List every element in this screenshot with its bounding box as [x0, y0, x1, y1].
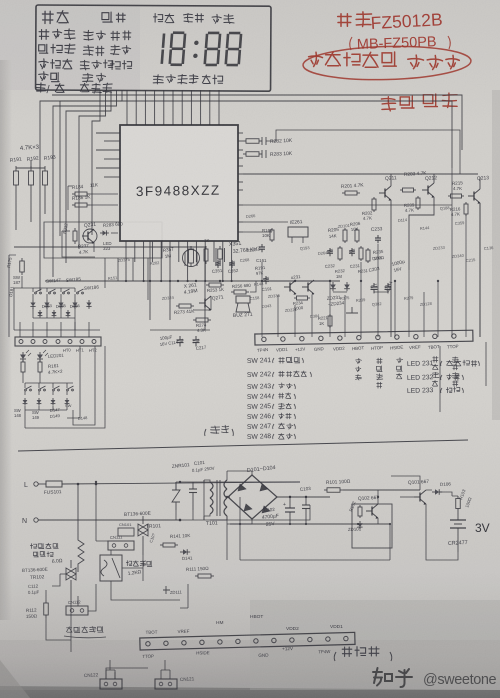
label main heater (chinese): [30, 544, 36, 549]
wire bus display to IC top: [126, 90, 128, 125]
taste column: [111, 31, 120, 40]
wire rail to resistors: [30, 160, 32, 168]
label taste (kougan): [102, 12, 112, 22]
label side heater (chinese, underlined): [67, 627, 73, 632]
fuse FUS101: [38, 483, 46, 485]
label relay / top heater (chinese): [126, 561, 131, 566]
cap hatch marks: [177, 339, 183, 343]
power board connector strip: [140, 624, 356, 661]
extra right buses: [243, 221, 288, 223]
resistor R234 1000: [294, 297, 297, 299]
connector CN122: [100, 679, 122, 689]
rail above IC to right side: [60, 101, 452, 168]
resistor R256 680: [231, 291, 234, 293]
resistor R216 4.7K: [465, 202, 467, 204]
RC pairs C232/R232 C231/R231: [329, 248, 331, 251]
transistor Q271: [199, 302, 205, 304]
resistor R273 41K: [176, 305, 179, 307]
ceramic resonator X261 cluster: [183, 250, 200, 267]
wire heater top join: [95, 483, 98, 486]
transformer T101: [210, 480, 227, 516]
left nested rails: [59, 101, 61, 236]
nested return wires: [73, 346, 95, 425]
vertical chinese labels under connector: [356, 358, 362, 363]
resistor R111 150: [195, 575, 198, 577]
label hour: [202, 75, 210, 83]
bus into left connector: [19, 322, 21, 337]
diode row D181-D186: [32, 300, 34, 303]
display panel box: [36, 5, 271, 97]
resistor 1K vertical: [205, 246, 207, 249]
box around regulator: [352, 504, 392, 548]
resistor pair R161 4.7Kx2: [22, 360, 24, 362]
zener diodes ZD231-234: [332, 282, 334, 285]
matrix lower wires: [25, 382, 73, 384]
crystal X351: [219, 246, 221, 249]
transformer wires: [176, 482, 300, 520]
thermistor input transistors u231: [284, 286, 290, 288]
IC left pins: [96, 132, 120, 134]
zener ZD101: [359, 521, 361, 523]
label (power board) chinese: [334, 652, 336, 661]
resistor R103 100: [457, 496, 459, 499]
IC U1 3F9488XZZ body: [120, 125, 238, 241]
supervisor IE261 box: [288, 227, 308, 237]
left outer wire: [8, 255, 10, 337]
wire Q213 emitter down: [479, 203, 481, 337]
caps C114 C217: [179, 336, 181, 340]
buzzer BUZ271: [236, 296, 250, 303]
menu column 1: [39, 30, 49, 40]
label function (gongneng): [42, 11, 53, 23]
bottom dark strip: [0, 686, 500, 698]
horizontal ties right: [262, 280, 330, 282]
junction dots main bus: [149, 280, 151, 282]
wire Q212 emitter down: [409, 197, 434, 270]
zhihu watermark: [373, 668, 412, 687]
wire loop Q231: [62, 231, 95, 257]
red oval around title: [303, 44, 472, 81]
diode D111: [163, 586, 170, 594]
labels cook / finish / time: [153, 14, 162, 23]
regulator wires: [426, 490, 458, 496]
connector CN101 small box: [118, 528, 134, 536]
switch matrix wires: [32, 288, 34, 292]
vertical drops to connector: [261, 262, 263, 337]
heater element zigzag (main pot): [78, 484, 84, 572]
menu column 2: [84, 30, 94, 40]
rail top right: [243, 173, 478, 175]
wire R282 bend: [266, 130, 460, 174]
wires display left bend group: [92, 90, 100, 235]
N rail down-right: [180, 505, 310, 520]
sensor stub wires below connector: [439, 346, 441, 412]
bus under IC: [45, 280, 340, 282]
resistor R283 10K: [243, 153, 246, 155]
title Midea FZ5012B (red): [338, 14, 351, 27]
gnd bus power: [230, 523, 390, 525]
resistor R253 1K: [206, 284, 209, 286]
diode D141: [180, 551, 183, 553]
wire Q211 emitter down: [390, 200, 392, 337]
main board connector strip: [255, 330, 473, 353]
connector CN121: [155, 679, 177, 689]
resistor R175 4.7K: [21, 258, 23, 261]
LED201 pair: [22, 352, 24, 355]
diode D106: [432, 491, 435, 493]
IC bottom pins: [125, 241, 127, 281]
caps C204 pair: [373, 283, 375, 287]
label (main board): [205, 429, 206, 436]
resistor R274 4.3K: [193, 319, 196, 321]
resistor R202 4.7K: [373, 197, 375, 199]
title smart rice cooker circuit diagram (red): [309, 52, 323, 66]
label keep-warm: [153, 75, 163, 84]
IC right pins: [238, 132, 243, 134]
pullup top rail: [16, 167, 45, 169]
left paper edge shadow: [0, 60, 12, 620]
diode LED323: [100, 232, 103, 234]
resistor R112 150: [45, 600, 47, 603]
wires from regulator to connector: [240, 559, 390, 561]
wire buzzer loop: [193, 281, 256, 310]
resistor R209 4.7K: [417, 196, 419, 198]
title (MB-FZ50PB) (red): [350, 37, 352, 50]
DC+ wire: [277, 496, 330, 498]
wire matrix to bus: [13, 288, 15, 330]
wire loop around Q231 cluster: [44, 222, 162, 258]
7-segment clock 18:88: [162, 33, 241, 65]
half-gnd symbol: [346, 307, 358, 313]
bus to connector risers: [187, 632, 189, 638]
drop wires power: [180, 584, 188, 608]
switch row 1: [35, 292, 37, 294]
resistor R221 1K: [329, 314, 331, 316]
wires left branch: [46, 590, 71, 652]
relay coil box: [100, 555, 122, 581]
bridge AC wires: [227, 471, 252, 475]
switch matrix lower: [25, 389, 27, 391]
surveyor name (red): [381, 97, 395, 111]
connector strip J2 (display board): [15, 337, 101, 346]
cap C161: [261, 244, 263, 247]
connector CN111: [108, 541, 134, 550]
caps C351 C352: [217, 260, 219, 263]
resistor R282 10K: [243, 140, 246, 142]
CN wires: [106, 670, 170, 679]
separator line between boards: [18, 440, 468, 451]
resistor R235 100: [367, 248, 369, 250]
relay wires: [111, 550, 180, 600]
connector CN112: [66, 606, 88, 615]
battery CR2477 3V: [457, 511, 459, 520]
